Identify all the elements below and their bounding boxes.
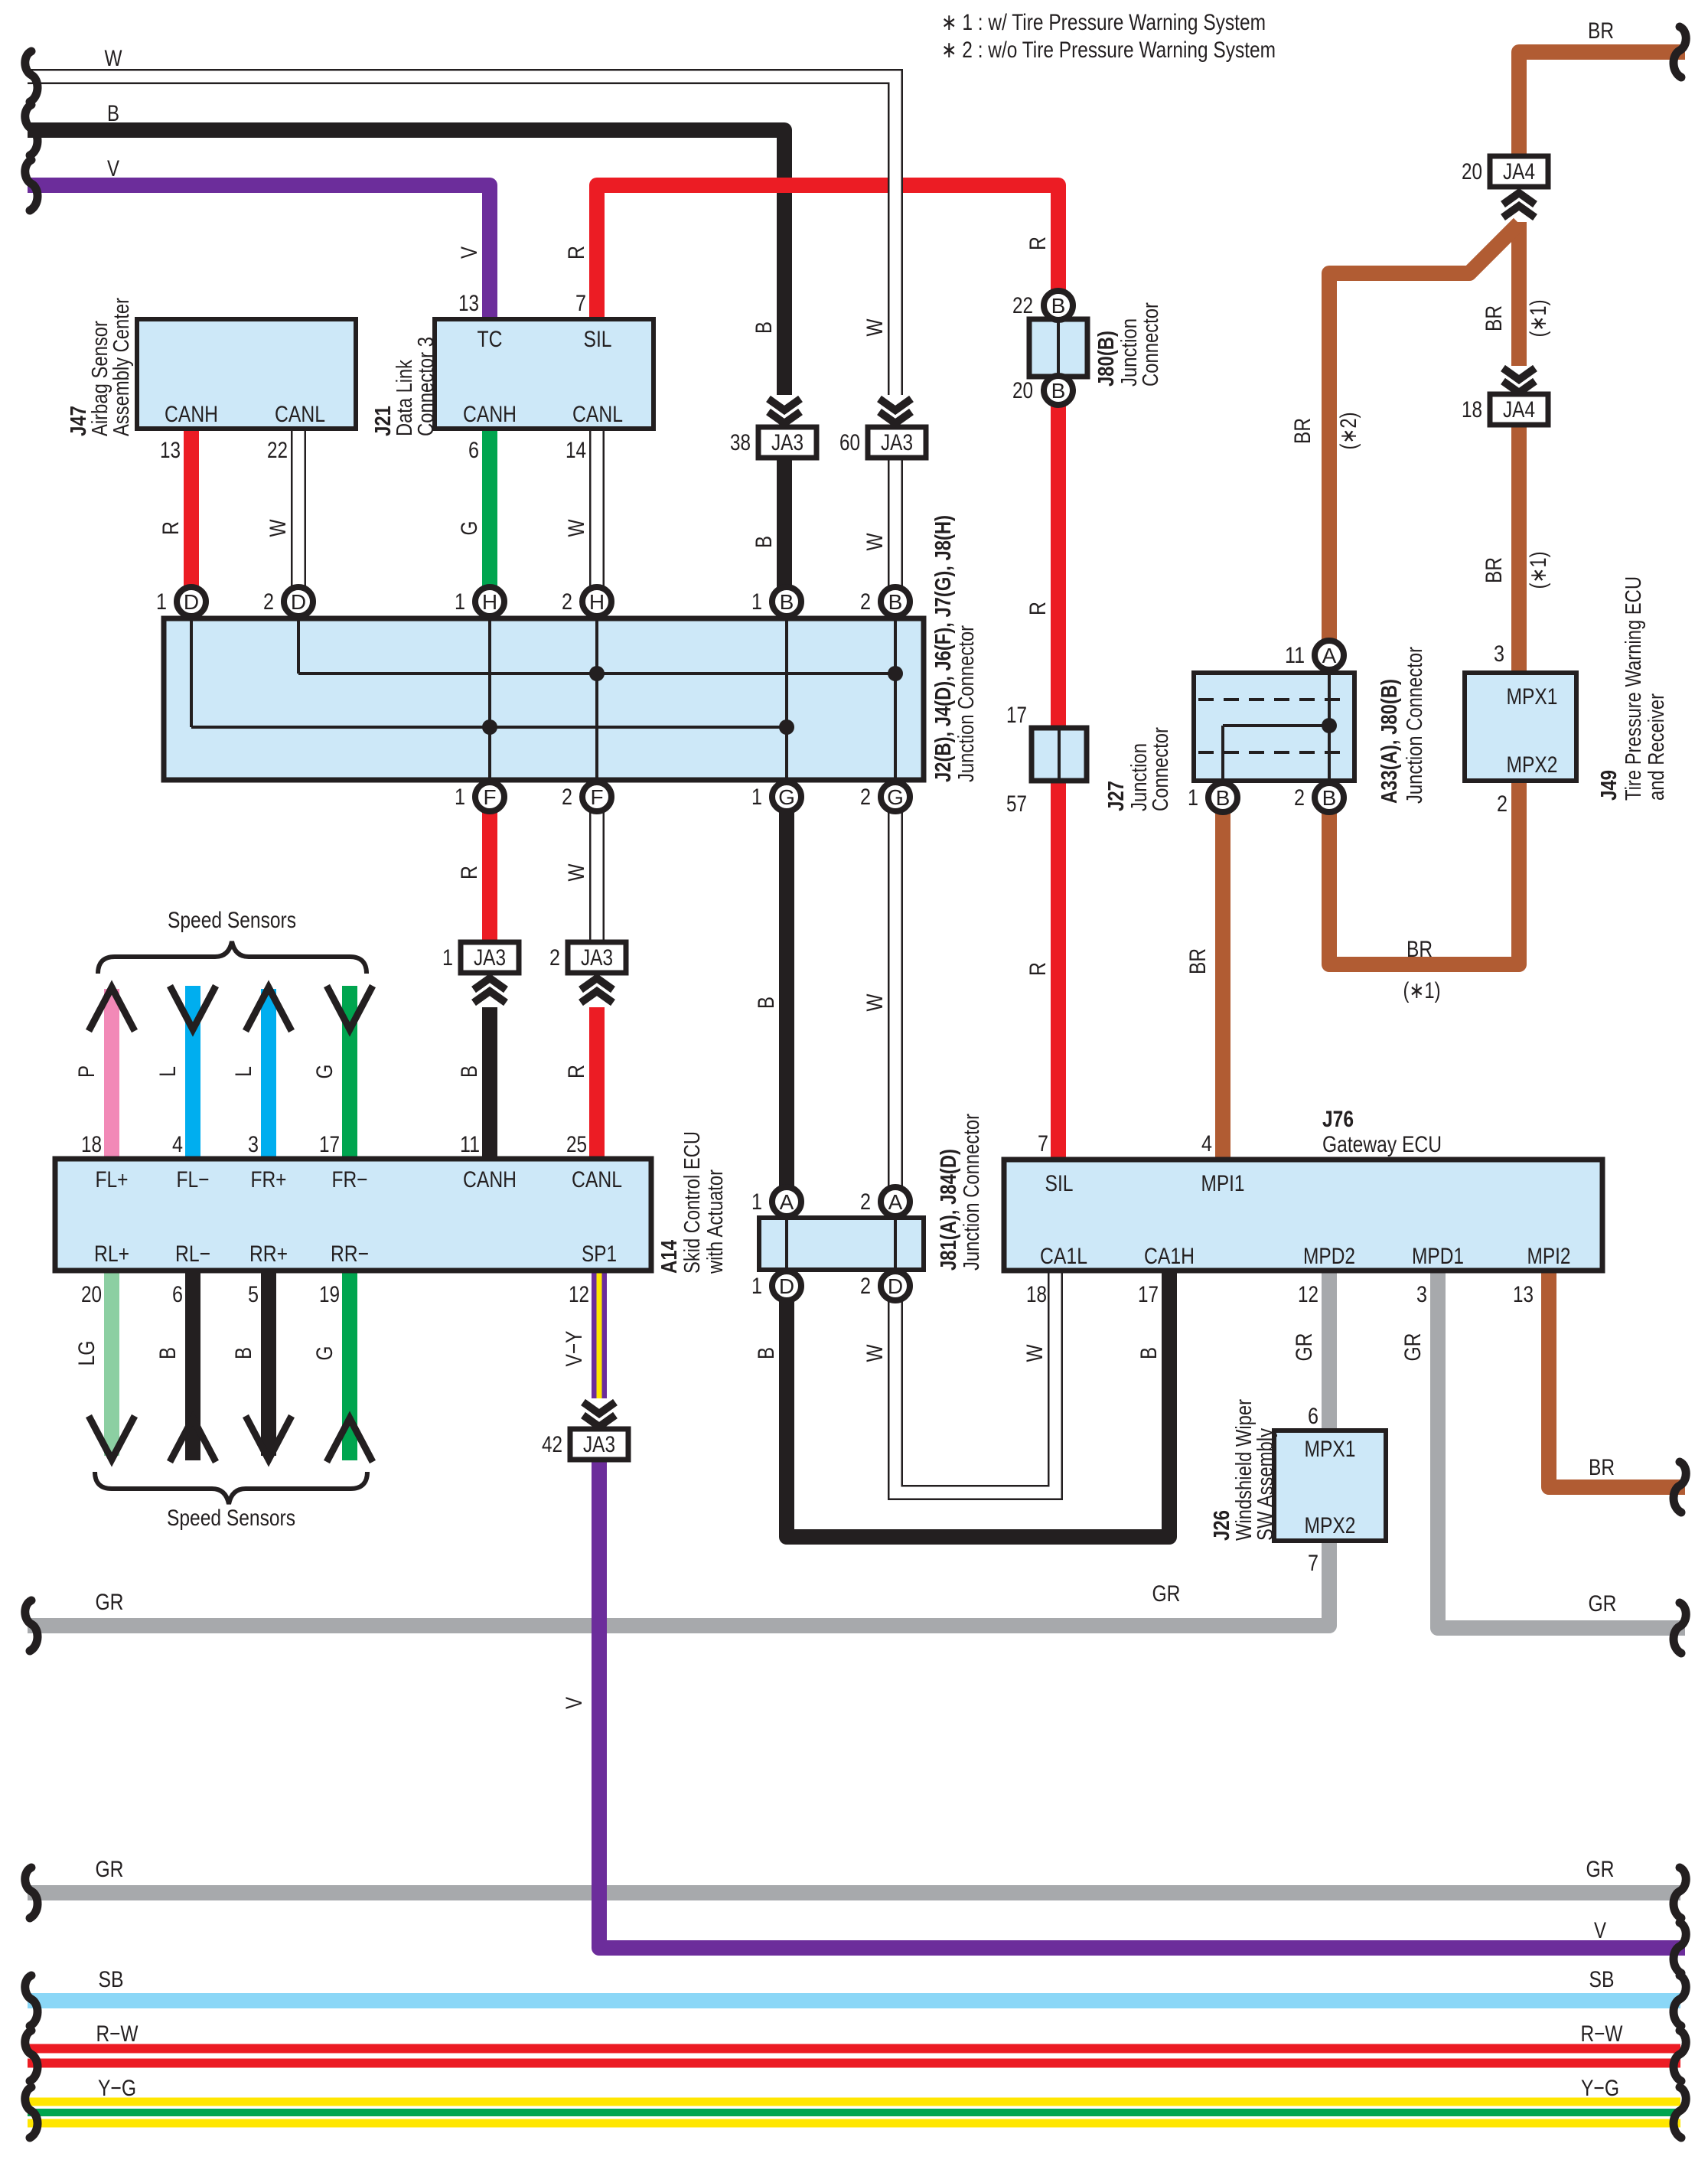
svg-text:R: R [564, 1065, 589, 1078]
junction connector A33(A) J80(B) [1194, 673, 1354, 781]
svg-text:2: 2 [860, 1189, 871, 1215]
svg-text:JA4: JA4 [1503, 159, 1535, 184]
svg-text:BR: BR [1406, 937, 1433, 962]
svg-text:F: F [590, 785, 603, 809]
svg-text:CANH: CANH [463, 1167, 517, 1192]
svg-text:W: W [564, 519, 589, 537]
wire SB bus [28, 1993, 1680, 2008]
svg-text:R−W: R−W [1581, 2021, 1624, 2047]
arrow FL+ sensor [89, 987, 135, 1031]
break symbol V bus left [25, 160, 37, 210]
svg-text:Connector: Connector [1139, 302, 1163, 387]
svg-text:1: 1 [751, 785, 762, 810]
wire B RL- [185, 1269, 200, 1460]
svg-text:13: 13 [458, 291, 479, 316]
svg-text:Connector 3: Connector 3 [414, 337, 438, 436]
junction connector J80(B) [1029, 319, 1087, 377]
arrow RL- sensor [170, 1418, 216, 1462]
svg-text:2: 2 [860, 785, 871, 810]
svg-text:1: 1 [455, 785, 465, 810]
node 2B A33 [1315, 783, 1344, 812]
svg-text:38: 38 [730, 430, 751, 455]
wire W CA1L path [895, 799, 1055, 1493]
svg-text:V: V [562, 1697, 587, 1709]
wire B CA1H path [787, 799, 1169, 1537]
wire GR J76 MPD2 to J26 [1322, 1268, 1337, 1433]
svg-text:B: B [751, 321, 777, 334]
svg-text:H: H [589, 590, 605, 614]
svg-text:B: B [1216, 786, 1230, 810]
wire BR JA4 20 to JA4 18 [1511, 222, 1527, 366]
wire R-W bus [28, 2044, 1680, 2068]
arrow FR+ sensor [246, 987, 292, 1031]
svg-text:GR: GR [1152, 1581, 1181, 1607]
svg-text:MPX2: MPX2 [1305, 1513, 1356, 1538]
svg-text:D: D [291, 590, 306, 614]
node 2H [582, 587, 611, 616]
svg-text:P: P [74, 1065, 99, 1078]
wire R SIL [597, 185, 1058, 1162]
connector JA4 pin 20 [1503, 193, 1535, 204]
svg-text:Junction Connector: Junction Connector [1403, 647, 1427, 804]
svg-text:W: W [862, 1344, 888, 1362]
svg-text:A14: A14 [657, 1240, 682, 1274]
svg-text:B: B [155, 1347, 181, 1359]
svg-text:Y−G: Y−G [1581, 2076, 1619, 2101]
wire B below JA3 38 [777, 458, 792, 599]
svg-text:2: 2 [263, 589, 274, 615]
svg-text:JA3: JA3 [474, 945, 506, 971]
svg-text:12: 12 [569, 1282, 589, 1307]
svg-text:25: 25 [566, 1132, 587, 1157]
svg-text:CANH: CANH [463, 402, 517, 427]
wire GR bus to J26 MPX2 [28, 1541, 1329, 1626]
svg-text:W: W [862, 993, 888, 1012]
svg-text:18: 18 [81, 1132, 102, 1157]
svg-text:11: 11 [1285, 643, 1305, 668]
svg-text:RL−: RL− [175, 1241, 210, 1267]
svg-text:Junction Connector: Junction Connector [954, 625, 979, 782]
svg-text:BR: BR [1588, 18, 1614, 44]
wire BR J49 pin2 to A33 pin 2B [1329, 779, 1519, 964]
svg-text:W: W [862, 318, 888, 337]
svg-text:CANL: CANL [572, 402, 623, 427]
svg-text:13: 13 [1513, 1282, 1534, 1307]
svg-text:Connector: Connector [1149, 727, 1173, 811]
node 22B J80 [1044, 291, 1073, 320]
svg-text:6: 6 [172, 1282, 183, 1307]
connector JA3 pin 1 [474, 978, 506, 990]
svg-text:22: 22 [267, 438, 288, 463]
svg-text:with Actuator: with Actuator [703, 1170, 728, 1274]
svg-text:FR−: FR− [332, 1167, 368, 1192]
node 1F [475, 782, 504, 811]
svg-text:(∗1): (∗1) [1526, 552, 1551, 589]
svg-text:2: 2 [562, 589, 572, 615]
wire B bus [28, 130, 784, 395]
svg-text:G: G [312, 1065, 337, 1079]
svg-text:L: L [231, 1066, 256, 1077]
svg-text:JA3: JA3 [771, 430, 803, 455]
node 1A J81 [772, 1187, 801, 1216]
svg-text:CANH: CANH [165, 402, 218, 427]
svg-text:MPX1: MPX1 [1507, 684, 1558, 710]
svg-text:MPI2: MPI2 [1527, 1244, 1571, 1269]
svg-text:7: 7 [1308, 1551, 1318, 1576]
svg-text:3: 3 [248, 1132, 259, 1157]
connector A14 Skid Control ECU with Actuator [55, 1159, 651, 1271]
svg-text:B: B [1051, 379, 1066, 403]
svg-text:B: B [751, 536, 777, 548]
svg-text:BR: BR [1185, 948, 1211, 974]
svg-text:FR+: FR+ [251, 1167, 287, 1192]
node 1D [177, 587, 206, 616]
svg-text:7: 7 [1038, 1131, 1048, 1157]
svg-text:R: R [1025, 602, 1051, 615]
svg-text:Junction Connector: Junction Connector [960, 1114, 984, 1271]
svg-text:57: 57 [1006, 791, 1027, 817]
svg-text:2: 2 [562, 785, 572, 810]
svg-text:Speed Sensors: Speed Sensors [168, 908, 296, 933]
svg-text:CANL: CANL [275, 402, 325, 427]
svg-text:SIL: SIL [1045, 1171, 1074, 1196]
svg-text:4: 4 [1201, 1131, 1212, 1157]
svg-text:V: V [457, 246, 482, 259]
svg-text:CA1H: CA1H [1144, 1244, 1195, 1269]
svg-text:1: 1 [442, 945, 453, 971]
svg-text:MPD2: MPD2 [1303, 1244, 1355, 1269]
svg-text:J27: J27 [1104, 781, 1129, 811]
wire V-Y SP1 [592, 1269, 607, 1398]
wire BR JA4 18 to J49 pin 3 [1511, 422, 1527, 675]
svg-text:20: 20 [1012, 378, 1033, 403]
break symbol R-W right [1674, 2031, 1686, 2081]
node 1B A33 [1208, 783, 1237, 812]
junction connector J81(A) J84(D) [759, 1218, 924, 1270]
svg-text:18: 18 [1026, 1282, 1047, 1307]
svg-text:FL−: FL− [177, 1167, 210, 1192]
wire R J47 CANH [184, 427, 199, 599]
node 1G [772, 782, 801, 811]
svg-text:GR: GR [96, 1590, 124, 1615]
svg-text:J26: J26 [1210, 1510, 1234, 1541]
connector J26 Windshield Wiper SW Assembly [1274, 1431, 1386, 1541]
node 11A A33 [1315, 641, 1344, 670]
svg-text:2: 2 [1294, 785, 1305, 811]
break symbol GR lower right [1674, 1868, 1686, 1918]
arrow FR- sensor [327, 986, 373, 1029]
wire V bus [28, 185, 490, 321]
brace speed sensors top [98, 941, 367, 974]
connector J76 Gateway ECU [1004, 1160, 1602, 1271]
svg-text:B: B [754, 997, 779, 1009]
svg-text:F: F [483, 785, 496, 809]
connector J49 Tire Pressure Warning ECU and Receiver [1465, 673, 1576, 781]
wire R 1F to JA3 [482, 799, 497, 958]
svg-text:18: 18 [1462, 397, 1482, 422]
connector JA3 pin 42 [583, 1415, 615, 1427]
svg-text:12: 12 [1298, 1282, 1318, 1307]
svg-text:W: W [564, 863, 589, 882]
svg-text:V−Y: V−Y [562, 1331, 587, 1367]
svg-text:6: 6 [1308, 1404, 1318, 1429]
svg-text:J2(B), J4(D), J6(F), J7(G), J8: J2(B), J4(D), J6(F), J7(G), J8(H) [931, 515, 956, 782]
svg-text:H: H [482, 590, 497, 614]
break symbol SB right [1674, 1975, 1686, 2026]
wire GR bus lower [28, 1885, 1680, 1900]
svg-text:V: V [1594, 1918, 1606, 1943]
svg-text:3: 3 [1416, 1282, 1427, 1307]
svg-text:GR: GR [1589, 1591, 1617, 1617]
connector JA4 pin 18 [1503, 381, 1535, 393]
svg-text:17: 17 [1138, 1282, 1159, 1307]
svg-text:TC: TC [478, 327, 503, 352]
wire LG RL+ [104, 1269, 119, 1456]
svg-text:R: R [1025, 237, 1051, 250]
break symbol W bus left [25, 51, 37, 102]
svg-text:Skid Control ECU: Skid Control ECU [680, 1131, 705, 1274]
connector JA3 pin 60 [879, 412, 911, 423]
break symbol Y-G right [1674, 2087, 1686, 2138]
svg-text:(∗1): (∗1) [1403, 978, 1441, 1003]
svg-text:B: B [754, 1347, 779, 1359]
wire W J47 CANL [291, 427, 306, 599]
wire Y-G bus [28, 2098, 1680, 2128]
svg-text:MPI1: MPI1 [1201, 1171, 1245, 1196]
node 2G [881, 782, 910, 811]
svg-text:1: 1 [751, 589, 762, 615]
svg-text:SB: SB [99, 1967, 124, 1992]
svg-text:JA3: JA3 [581, 945, 613, 971]
svg-text:1: 1 [751, 1274, 762, 1299]
svg-text:R−W: R−W [96, 2021, 139, 2047]
wire GR J76 MPD1 exit [1438, 1268, 1685, 1628]
svg-text:17: 17 [1006, 703, 1027, 728]
junction connector J27 [1032, 728, 1087, 781]
svg-text:LG: LG [74, 1341, 99, 1366]
node 1H [475, 587, 504, 616]
svg-text:6: 6 [468, 438, 479, 463]
node 1B [772, 587, 801, 616]
svg-text:CA1L: CA1L [1040, 1244, 1087, 1269]
connector J47 Airbag Sensor Assembly Center [137, 319, 356, 429]
wire B RR+ [261, 1269, 276, 1456]
svg-text:B: B [107, 101, 119, 126]
node 2D J81 [881, 1271, 910, 1300]
break symbol R-W left [25, 2031, 37, 2081]
svg-text:13: 13 [160, 438, 181, 463]
svg-text:V: V [107, 156, 119, 181]
node 2D [284, 587, 313, 616]
svg-text:B: B [888, 590, 903, 614]
svg-text:G: G [312, 1346, 337, 1361]
wire P FL+ [104, 989, 119, 1160]
svg-text:42: 42 [542, 1432, 562, 1457]
node 20B J80 [1044, 376, 1073, 405]
svg-text:∗ 2 : w/o Tire Pressure Warnin: ∗ 2 : w/o Tire Pressure Warning System [941, 38, 1276, 63]
wire V below JA3 42 [599, 1457, 1685, 1948]
break symbol GR bus left [25, 1600, 37, 1651]
svg-text:(∗2): (∗2) [1336, 413, 1361, 450]
wire W below JA3 60 [888, 458, 903, 599]
svg-text:14: 14 [566, 438, 586, 463]
svg-text:B: B [231, 1347, 256, 1359]
svg-text:2: 2 [860, 1274, 871, 1299]
svg-text:BR: BR [1290, 418, 1315, 444]
svg-text:2: 2 [1497, 791, 1508, 817]
svg-text:J81(A), J84(D): J81(A), J84(D) [937, 1149, 961, 1271]
svg-text:BR: BR [1589, 1455, 1615, 1480]
svg-text:B: B [780, 590, 794, 614]
svg-text:Tire Pressure Warning ECU: Tire Pressure Warning ECU [1622, 576, 1646, 801]
svg-text:Gateway ECU: Gateway ECU [1322, 1132, 1442, 1157]
svg-text:G: G [778, 785, 795, 809]
break symbol B bus left [25, 105, 37, 155]
svg-text:FL+: FL+ [96, 1167, 129, 1192]
junction connector J2(B) J4(D) J6(F) J7(G) J8(H) [164, 618, 924, 780]
wire L FL- [185, 986, 200, 1160]
svg-text:A: A [780, 1190, 794, 1214]
svg-text:1: 1 [1188, 785, 1198, 811]
svg-text:MPD1: MPD1 [1412, 1244, 1464, 1269]
svg-text:G: G [887, 785, 904, 809]
svg-text:JA3: JA3 [583, 1432, 615, 1457]
svg-text:SIL: SIL [584, 327, 612, 352]
wire BR bus top right [1519, 52, 1685, 158]
svg-text:GR: GR [1292, 1333, 1317, 1362]
svg-text:B: B [1136, 1347, 1162, 1359]
node 2F [582, 782, 611, 811]
svg-text:RR−: RR− [331, 1241, 369, 1267]
wire G RR- [342, 1269, 357, 1460]
arrow RR- sensor [327, 1418, 373, 1462]
svg-text:GR: GR [1586, 1857, 1615, 1882]
arrow RL+ sensor [89, 1416, 135, 1460]
arrow RR+ sensor [246, 1416, 292, 1460]
svg-text:19: 19 [319, 1282, 340, 1307]
svg-text:L: L [155, 1066, 181, 1077]
svg-text:(∗1): (∗1) [1526, 300, 1551, 338]
svg-text:B: B [1322, 786, 1337, 810]
svg-text:J80(B): J80(B) [1094, 331, 1119, 387]
svg-text:60: 60 [839, 430, 860, 455]
svg-text:D: D [888, 1274, 903, 1298]
wire W J21 CANL [589, 427, 605, 599]
svg-text:SB: SB [1589, 1967, 1615, 1992]
svg-text:BR: BR [1481, 305, 1507, 331]
svg-text:2: 2 [549, 945, 560, 971]
brace speed sensors bottom [95, 1472, 367, 1504]
svg-text:J76: J76 [1322, 1107, 1354, 1132]
svg-text:5: 5 [248, 1282, 259, 1307]
wire BR J76 MPI2 exit [1549, 1268, 1685, 1487]
svg-text:3: 3 [1494, 641, 1504, 667]
svg-text:R: R [158, 521, 184, 535]
svg-text:and Receiver: and Receiver [1644, 693, 1669, 801]
node 2A J81 [881, 1187, 910, 1216]
svg-text:A: A [1322, 644, 1337, 667]
svg-text:R: R [564, 246, 589, 259]
node 1D J81 [772, 1271, 801, 1300]
wire G FR- [342, 986, 357, 1160]
svg-text:W: W [862, 533, 888, 551]
svg-text:BR: BR [1481, 557, 1507, 583]
svg-text:R: R [457, 866, 482, 879]
svg-text:Assembly Center: Assembly Center [109, 298, 134, 436]
break symbol V right [1674, 1923, 1686, 1973]
break symbol GR lower left [25, 1868, 37, 1918]
svg-text:SW Assembly: SW Assembly [1253, 1428, 1278, 1541]
wire W 2F to JA3 [589, 799, 605, 958]
svg-text:A: A [888, 1190, 903, 1214]
break symbol SB left [25, 1975, 37, 2026]
wire G J21 CANH [482, 427, 497, 599]
wire BR branch *2 to A33 pin 11 [1329, 223, 1519, 641]
svg-text:A33(A), J80(B): A33(A), J80(B) [1377, 679, 1402, 804]
svg-text:W: W [266, 519, 291, 537]
wire L FR+ [261, 989, 276, 1160]
connector JA3 pin 38 [768, 412, 800, 423]
svg-text:1: 1 [455, 589, 465, 615]
wire B JA3 to A14 CANH [482, 1007, 497, 1160]
svg-text:R: R [1025, 962, 1051, 976]
break symbol BR right [1674, 1462, 1686, 1512]
svg-text:11: 11 [460, 1132, 480, 1157]
svg-text:2: 2 [860, 589, 871, 615]
svg-text:20: 20 [1462, 159, 1482, 184]
svg-text:7: 7 [575, 291, 586, 316]
svg-text:MPX2: MPX2 [1507, 752, 1558, 778]
svg-text:22: 22 [1012, 293, 1033, 318]
svg-text:CANL: CANL [572, 1167, 622, 1192]
connector J21 Data Link Connector 3 [435, 319, 654, 429]
svg-text:G: G [457, 521, 482, 536]
svg-text:MPX1: MPX1 [1305, 1437, 1356, 1462]
svg-text:JA4: JA4 [1503, 397, 1535, 422]
svg-text:Speed Sensors: Speed Sensors [167, 1506, 295, 1531]
wire R JA3 to A14 CANL [589, 1007, 605, 1160]
svg-text:D: D [184, 590, 199, 614]
arrow FL- sensor [170, 986, 216, 1029]
svg-text:B: B [457, 1065, 482, 1078]
svg-text:RL+: RL+ [94, 1241, 129, 1267]
svg-text:∗ 1 : w/ Tire Pressure Warning: ∗ 1 : w/ Tire Pressure Warning System [941, 10, 1266, 35]
svg-text:W: W [1022, 1344, 1048, 1362]
svg-text:1: 1 [751, 1189, 762, 1215]
break symbol GR right [1674, 1603, 1686, 1653]
break symbol Y-G left [25, 2087, 37, 2138]
connector JA3 pin 2 [581, 978, 613, 990]
svg-text:GR: GR [1400, 1333, 1426, 1362]
break symbol BR top right [1674, 27, 1686, 77]
svg-text:RR+: RR+ [249, 1241, 288, 1267]
svg-text:1: 1 [156, 589, 167, 615]
node 2B [881, 587, 910, 616]
svg-text:GR: GR [96, 1857, 124, 1882]
svg-text:20: 20 [81, 1282, 102, 1307]
svg-text:SP1: SP1 [582, 1241, 617, 1267]
svg-text:4: 4 [172, 1132, 183, 1157]
wire W bus [28, 77, 895, 395]
svg-text:W: W [105, 46, 123, 71]
svg-text:B: B [1051, 294, 1066, 318]
svg-text:J49: J49 [1597, 770, 1622, 801]
svg-text:D: D [779, 1274, 794, 1298]
svg-text:Y−G: Y−G [98, 2076, 136, 2101]
wire BR A33 pin 1B to J76 MPI1 [1215, 811, 1230, 1162]
svg-text:17: 17 [319, 1132, 340, 1157]
svg-text:JA3: JA3 [881, 430, 913, 455]
